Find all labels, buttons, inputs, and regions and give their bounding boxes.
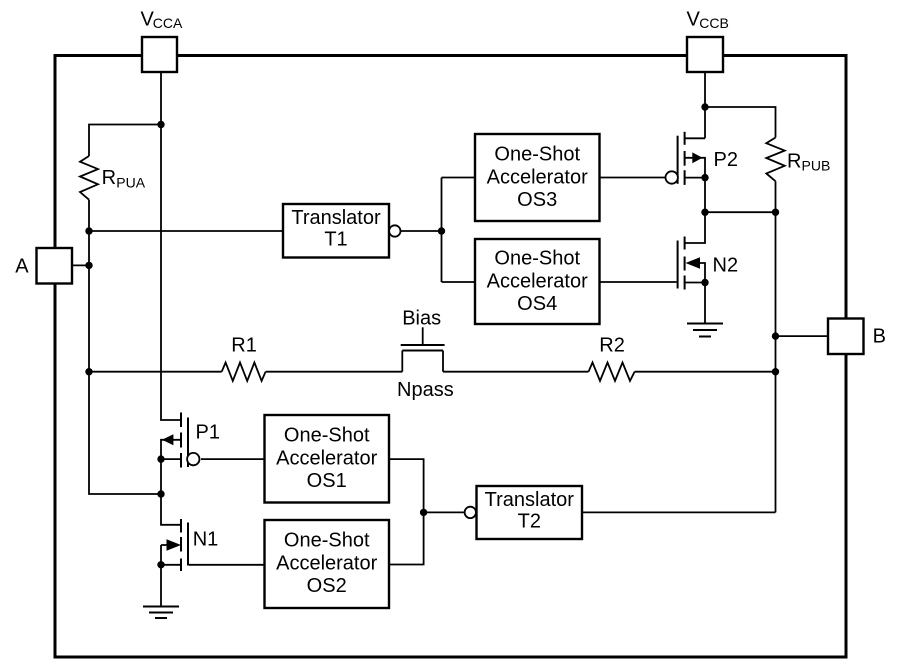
svg-text:T2: T2 [518,511,541,533]
svg-text:Accelerator: Accelerator [487,166,588,188]
svg-text:OS3: OS3 [517,189,557,211]
svg-text:One-Shot: One-Shot [284,529,370,551]
svg-text:One-Shot: One-Shot [494,143,580,165]
svg-text:N1: N1 [193,529,219,551]
svg-text:B: B [873,325,886,347]
svg-text:A: A [15,255,29,277]
svg-text:Translator: Translator [291,207,381,229]
svg-text:P2: P2 [714,149,738,171]
svg-text:OS1: OS1 [307,470,347,492]
svg-text:Accelerator: Accelerator [276,447,377,469]
svg-text:T1: T1 [324,229,347,251]
svg-text:Accelerator: Accelerator [276,552,377,574]
svg-text:OS4: OS4 [517,293,557,315]
svg-text:Bias: Bias [402,308,441,330]
svg-text:CCB: CCB [699,15,729,31]
svg-text:Translator: Translator [485,489,575,511]
svg-text:PUB: PUB [802,158,831,174]
svg-text:R1: R1 [231,334,257,356]
svg-text:PUA: PUA [116,174,145,190]
svg-text:CCA: CCA [153,15,183,31]
svg-text:Npass: Npass [397,379,454,401]
svg-text:OS2: OS2 [307,575,347,597]
svg-text:R: R [102,167,116,189]
svg-text:Accelerator: Accelerator [487,270,588,292]
svg-text:N2: N2 [713,254,739,276]
svg-text:R: R [787,150,801,172]
svg-text:R2: R2 [599,334,625,356]
svg-text:One-Shot: One-Shot [494,247,580,269]
svg-text:One-Shot: One-Shot [284,424,370,446]
svg-text:P1: P1 [196,422,220,444]
